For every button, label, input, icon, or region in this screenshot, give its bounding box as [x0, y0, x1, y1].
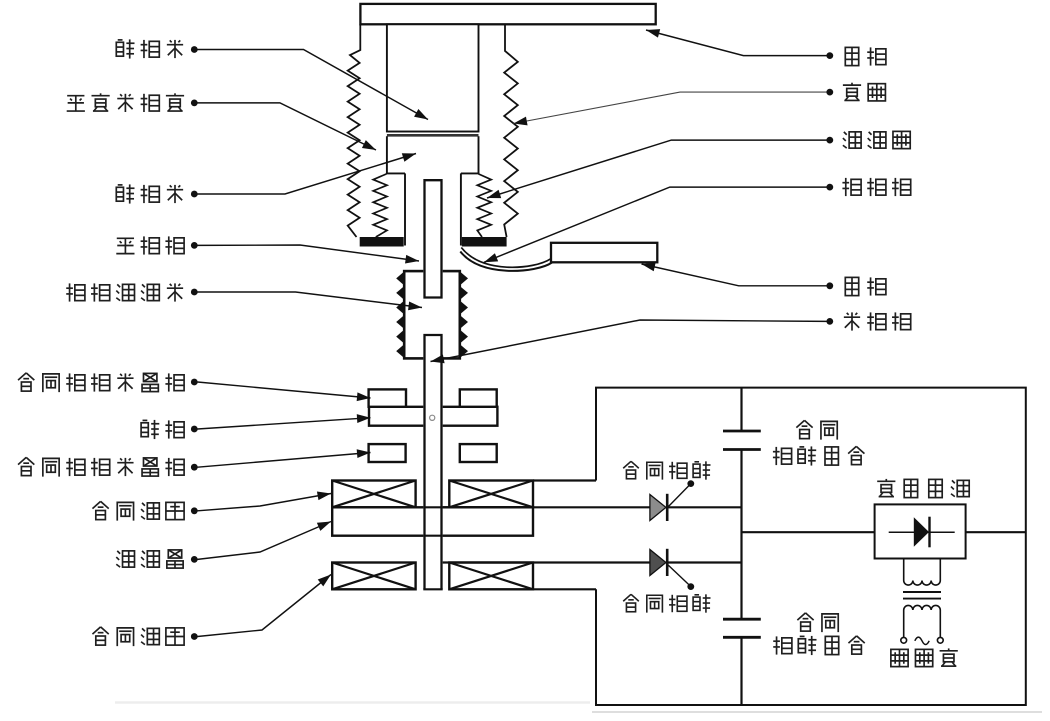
label text 分闸保持永磁铁 [18, 457, 34, 475]
label text 储能电容 [773, 447, 792, 465]
leader line 母排 low [642, 264, 827, 286]
leader line 波纹管 [487, 140, 827, 198]
contact thick line (静触头 contact face) [387, 134, 479, 137]
label bullet 瓷套 [826, 89, 833, 96]
faint scan line left [115, 701, 590, 703]
label text 下拉杆 [844, 312, 860, 330]
thyristor VT2 (合闸控制) triangle [650, 550, 666, 576]
opening coil left X [332, 481, 415, 508]
label bullet 母排 low [826, 282, 833, 289]
lower pull rod (下拉杆) [423, 335, 442, 588]
isolation transformer primary (隔离变) [904, 559, 941, 585]
leader line 衔铁 [198, 418, 371, 429]
center bus middle segment [740, 450, 742, 620]
label text 静触头 [116, 184, 134, 203]
thyristor VT2 cathode bar [666, 549, 669, 576]
closing holding magnet right [460, 389, 497, 406]
capacitor C2 plate 2 [723, 636, 761, 639]
label bullet 真空灭弧室 [191, 100, 198, 107]
left contact pad (软连接 pad, black) [360, 237, 404, 247]
porcelain sleeve left wall (瓷套 left zigzag) [348, 24, 361, 237]
leader line 合闸线圈 [198, 575, 332, 637]
label bullet 衔铁 [191, 426, 198, 433]
thyristor VT2 gate lead [667, 564, 691, 586]
leader line 拉杆绝缘子 [198, 292, 423, 308]
vacuum interrupter lower box [387, 136, 479, 173]
label text 储能电容 [773, 636, 792, 654]
wire thyristor 1 to bus [667, 506, 742, 508]
insulator body (拉杆绝缘子) [404, 271, 460, 358]
leader line 合闸保持永磁铁 [198, 382, 371, 398]
charger box (充电电源) [875, 504, 966, 558]
wire closing coil to thyristor 2 [443, 561, 651, 563]
label text 拉杆绝缘子 [66, 283, 85, 301]
armature plate (衔铁) [369, 407, 497, 426]
label text 真空灭弧室 [67, 96, 85, 111]
thyristor VT1 gate lead [667, 485, 691, 509]
label text 波纹管 [843, 132, 861, 148]
leader line 静触头 top [198, 50, 429, 120]
eddy plate bottom edge across rod [423, 535, 442, 537]
flexible connection lower curve [460, 252, 552, 271]
closing coil left X [332, 563, 415, 590]
transformer secondary [904, 605, 941, 637]
label text 分闸 [796, 420, 812, 438]
label bullet 分闸线圈 [191, 507, 198, 514]
opening holding magnet right [460, 444, 497, 462]
transformer terminal left [901, 637, 907, 643]
leader line 静触头 mid [198, 154, 417, 195]
label text 合闸 [797, 613, 813, 631]
label bullet 母排 top [826, 52, 833, 59]
vacuum interrupter upper box (真空灭弧室 upper chamber) [387, 24, 479, 131]
leader line 涡流盘 [198, 522, 332, 560]
wire thyristor 2 to bus [667, 561, 742, 563]
center bus lower segment [740, 637, 742, 705]
label text 软连接 [842, 178, 861, 196]
label bullet 涡流盘 [191, 556, 198, 563]
faint scan line right [592, 711, 1042, 713]
thyristor VT2 gate dot [687, 583, 694, 590]
label text 分闸控制 [623, 461, 639, 478]
label bullet 软连接 [826, 184, 833, 191]
label text 衔铁 [141, 420, 159, 439]
bellows left (波纹管 left zigzag) [373, 174, 387, 237]
label text 母排 [845, 47, 858, 65]
charger diode bar [928, 517, 930, 548]
leader line 母排 top [646, 30, 827, 56]
porcelain sleeve right wall (瓷套 right zigzag) [504, 24, 518, 237]
label bullet 合闸线圈 [191, 633, 198, 640]
leader line 真空灭弧室 [198, 103, 377, 150]
label text 充电电源 [877, 479, 895, 497]
flexible connection curve (软连接) [461, 248, 551, 268]
contact gap thin line [387, 131, 479, 133]
thyristor VT1 (分闸控制) triangle [650, 495, 666, 521]
closing holding magnet left (合闸保持永磁铁) [369, 389, 406, 406]
bellows right (波纹管 right zigzag) [477, 174, 491, 237]
charger diode triangle [914, 517, 929, 546]
label bullet 上拉杆 [191, 242, 198, 249]
right contact pad (black) [462, 237, 507, 247]
throat right wall [460, 173, 462, 245]
label text 合闸线圈 [92, 627, 108, 645]
capacitor C1 plate 2 [723, 448, 761, 451]
label bullet 静触头 mid [191, 191, 198, 198]
leader line 分闸线圈 [198, 494, 332, 511]
transformer terminal right [937, 637, 943, 643]
small c mark on armature [430, 415, 435, 420]
wire coil bottom to box [533, 588, 596, 590]
eddy current plate (涡流盘) [332, 507, 533, 535]
leader line 分闸保持永磁铁 [198, 453, 371, 468]
circuit enclosure box [596, 388, 1026, 705]
label bullet 波纹管 [826, 137, 833, 144]
capacitor C1 (分闸储能电容) plate 1 [723, 430, 761, 433]
leader line 上拉杆 [198, 245, 420, 261]
wire charger to right edge [966, 531, 1026, 533]
opening coil box right [449, 481, 533, 508]
wire opening coil to thyristor 1 [443, 506, 651, 508]
coil bottom edge under rod [423, 588, 442, 590]
label text 上拉杆 [116, 238, 134, 253]
label text 母排 [845, 277, 858, 295]
label text 隔离变 [891, 649, 908, 666]
closing coil box left (合闸线圈) [332, 563, 415, 590]
opening coil box left (分闸线圈) [332, 481, 415, 508]
label text 涡流盘 [116, 551, 134, 567]
center bus upper segment [740, 388, 742, 431]
wire coil top to box [533, 479, 596, 481]
closing coil right X [449, 563, 533, 590]
busbar right (母排 #2) rectangle [551, 243, 657, 262]
lower chamber throat left wall [404, 173, 406, 245]
label text 分闸线圈 [92, 501, 108, 519]
leader line 下拉杆 [431, 320, 827, 362]
leader line 瓷套 [514, 92, 827, 123]
label bullet 拉杆绝缘子 [191, 289, 198, 296]
charger diode line [889, 531, 955, 533]
label text 静触头 [116, 39, 134, 58]
insulator right teeth [459, 271, 468, 358]
busbar top (母排) rectangle [360, 4, 655, 24]
thyristor VT1 gate dot [687, 480, 694, 487]
label bullet 合闸保持永磁铁 [191, 379, 198, 386]
insulator left teeth [396, 271, 404, 358]
label bullet 静触头 top [191, 46, 198, 53]
capacitor C2 (合闸储能电容) plate 1 [723, 618, 761, 621]
opening coil right X [449, 481, 533, 508]
label bullet 下拉杆 [826, 318, 833, 325]
closing coil box right [449, 563, 533, 590]
label text 合闸控制 [623, 594, 639, 611]
upper pull rod (上拉杆) [423, 180, 442, 298]
AC tilde symbol [915, 637, 929, 644]
eddy plate top edge across rod [423, 506, 442, 508]
wire bus to charger box [742, 531, 875, 533]
thyristor VT1 cathode bar [666, 494, 669, 521]
label text 合闸保持永磁铁 [18, 373, 34, 391]
transformer core lines [903, 591, 941, 593]
opening holding magnet left (分闸保持永磁铁) [369, 444, 406, 462]
leader line 软连接 [484, 187, 827, 262]
label bullet 分闸保持永磁铁 [191, 464, 198, 471]
label text 瓷套 [843, 83, 861, 101]
